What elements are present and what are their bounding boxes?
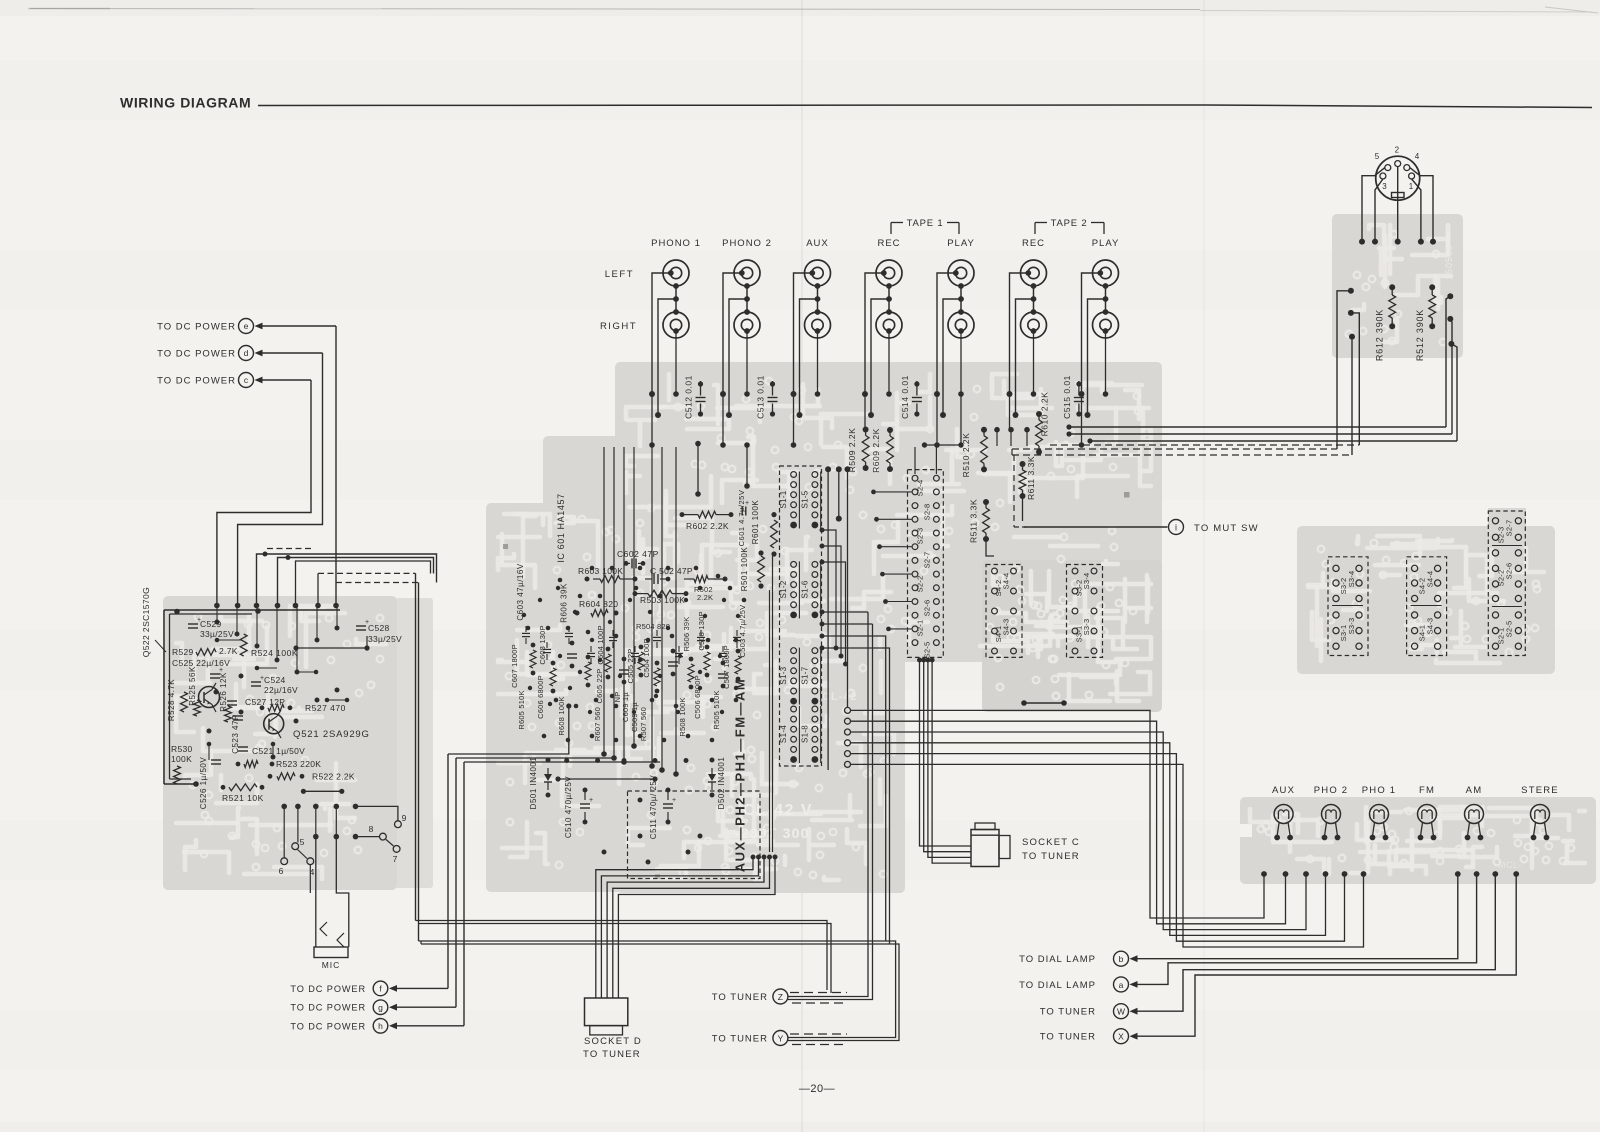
svg-text:S2-7: S2-7	[1505, 520, 1514, 537]
svg-text:AUX: AUX	[1272, 785, 1295, 796]
svg-text:C512 0.01: C512 0.01	[684, 375, 694, 419]
svg-text:PHONO 1: PHONO 1	[651, 238, 701, 249]
svg-text:TO TUNER: TO TUNER	[1040, 1032, 1096, 1043]
svg-text:C609 1µ: C609 1µ	[621, 692, 630, 722]
svg-text:i: i	[1175, 523, 1177, 533]
svg-text:C527 12P: C527 12P	[245, 697, 285, 707]
svg-text:TO DC POWER: TO DC POWER	[290, 1003, 366, 1013]
svg-text:R606 39K: R606 39K	[560, 583, 569, 623]
svg-text:TO MUT SW: TO MUT SW	[1194, 523, 1259, 534]
svg-text:TO DIAL LAMP: TO DIAL LAMP	[1019, 954, 1096, 965]
svg-text:Z: Z	[778, 992, 783, 1002]
svg-text:TO DC POWER: TO DC POWER	[157, 349, 236, 360]
svg-text:AM: AM	[1466, 785, 1483, 796]
svg-text:C521 1µ/50V: C521 1µ/50V	[252, 746, 305, 756]
svg-text:R505 510K: R505 510K	[712, 690, 721, 729]
svg-text:150500: 150500	[1444, 244, 1454, 280]
svg-text:TO TUNER: TO TUNER	[712, 992, 768, 1003]
svg-text:PHO 2: PHO 2	[1314, 785, 1349, 796]
svg-text:S2-5: S2-5	[923, 642, 932, 659]
svg-text:STERE: STERE	[1521, 785, 1559, 796]
svg-text:S1-1: S1-1	[779, 490, 788, 508]
svg-text:6: 6	[279, 866, 284, 876]
svg-text:S1-3: S1-3	[779, 666, 788, 684]
svg-text:R609 2.2K: R609 2.2K	[871, 428, 881, 473]
svg-text:S3-3: S3-3	[1347, 618, 1356, 635]
svg-text:WIRING DIAGRAM: WIRING DIAGRAM	[120, 95, 251, 111]
svg-text:g: g	[378, 1003, 383, 1013]
svg-text:CL-42: CL-42	[822, 691, 858, 703]
svg-text:R605 510K: R605 510K	[517, 690, 526, 729]
svg-text:R523 220K: R523 220K	[276, 759, 321, 769]
svg-text:R603 100K: R603 100K	[578, 566, 623, 576]
svg-text:S4-3: S4-3	[1426, 618, 1435, 635]
svg-text:S4-4: S4-4	[1002, 573, 1011, 590]
svg-text:S4-3: S4-3	[1002, 619, 1011, 636]
svg-text:TAPE 1: TAPE 1	[907, 218, 944, 229]
svg-text:S1-4: S1-4	[779, 725, 788, 743]
svg-text:R522 2.2K: R522 2.2K	[312, 772, 355, 782]
svg-text:S3-4: S3-4	[1082, 573, 1091, 590]
svg-text:S2-5: S2-5	[1505, 621, 1514, 638]
svg-text:h: h	[378, 1021, 383, 1031]
svg-text:C 502 47P: C 502 47P	[650, 566, 693, 576]
svg-text:R524 100K: R524 100K	[251, 648, 298, 658]
svg-text:R504 820: R504 820	[636, 622, 670, 631]
svg-text:S1-7: S1-7	[800, 666, 809, 684]
svg-text:D501 IN4001: D501 IN4001	[529, 757, 538, 810]
svg-text:C607 1800P: C607 1800P	[510, 644, 519, 688]
svg-text:R526 12K: R526 12K	[219, 672, 228, 712]
svg-text:S3-4: S3-4	[1347, 571, 1356, 588]
svg-text:S2-2: S2-2	[916, 576, 925, 593]
svg-text:CL-42 V: CL-42 V	[743, 802, 813, 819]
svg-text:RIGHT: RIGHT	[600, 321, 637, 332]
svg-text:C506 6800P: C506 6800P	[693, 675, 702, 719]
svg-text:2: 2	[1395, 146, 1400, 155]
svg-text:REC: REC	[1022, 238, 1045, 249]
svg-text:R521 10K: R521 10K	[222, 793, 264, 803]
svg-text:TO DC POWER: TO DC POWER	[290, 984, 366, 994]
svg-text:C514 0.01: C514 0.01	[900, 375, 910, 419]
svg-text:S2-7: S2-7	[923, 552, 932, 569]
svg-text:X: X	[1118, 1032, 1124, 1042]
svg-text:PHONO 2: PHONO 2	[722, 238, 772, 249]
svg-text:SOCKET D: SOCKET D	[584, 1036, 642, 1047]
svg-text:MCL-: MCL-	[1498, 860, 1522, 870]
svg-text:a: a	[1119, 980, 1124, 990]
svg-text:S1-6: S1-6	[800, 580, 809, 598]
svg-text:SOCKET C: SOCKET C	[1022, 837, 1080, 848]
svg-text:C603 47µ/16V: C603 47µ/16V	[516, 563, 525, 620]
svg-text:TO TUNER: TO TUNER	[1022, 851, 1080, 862]
svg-text:e: e	[244, 321, 249, 331]
svg-text:3: 3	[1382, 182, 1387, 191]
svg-text:C608 130P: C608 130P	[538, 625, 547, 664]
svg-text:S2-1: S2-1	[916, 620, 925, 637]
svg-text:100K: 100K	[171, 754, 192, 764]
svg-text:8: 8	[369, 824, 374, 834]
svg-text:PHO 1: PHO 1	[1362, 785, 1397, 796]
svg-text:+: +	[672, 797, 676, 804]
svg-text:S2-8: S2-8	[923, 504, 932, 521]
svg-text:C606 6800P: C606 6800P	[536, 675, 545, 719]
svg-text:S2-6: S2-6	[1505, 563, 1514, 580]
svg-text:22µ/16V: 22µ/16V	[264, 685, 298, 695]
svg-text:TO TUNER: TO TUNER	[583, 1049, 641, 1060]
svg-text:TO TUNER: TO TUNER	[1040, 1007, 1096, 1018]
svg-text:b: b	[1119, 954, 1124, 964]
svg-text:PLAY: PLAY	[1092, 238, 1120, 249]
svg-text:R602 2.2K: R602 2.2K	[686, 521, 729, 531]
svg-text:C526 1µ/50V: C526 1µ/50V	[199, 757, 208, 810]
svg-text:+: +	[589, 797, 593, 804]
svg-text:PLAY: PLAY	[947, 238, 975, 249]
svg-text:D502 IN4001: D502 IN4001	[717, 757, 726, 810]
svg-text:R604 820: R604 820	[579, 599, 618, 609]
svg-text:Y: Y	[778, 1033, 784, 1043]
svg-text:S1-8: S1-8	[800, 725, 809, 743]
svg-text:C510 470µ/25V: C510 470µ/25V	[564, 776, 573, 838]
svg-text:R506 39K: R506 39K	[682, 617, 691, 652]
svg-text:R529: R529	[172, 647, 194, 657]
svg-text:33µ/25V: 33µ/25V	[200, 629, 234, 639]
svg-text:C602 47P: C602 47P	[617, 549, 659, 559]
svg-text:C509 1µ: C509 1µ	[630, 702, 639, 732]
svg-text:S1-5: S1-5	[800, 490, 809, 508]
svg-text:R503 100K: R503 100K	[640, 595, 685, 605]
svg-text:S1-2: S1-2	[779, 580, 788, 598]
svg-text:TO DC POWER: TO DC POWER	[290, 1021, 366, 1031]
svg-text:C504 100P: C504 100P	[642, 638, 651, 677]
svg-text:Q521 2SA929G: Q521 2SA929G	[293, 729, 370, 740]
svg-text:33µ/25V: 33µ/25V	[368, 634, 402, 644]
svg-text:S2-4: S2-4	[916, 480, 925, 497]
svg-text:S4-4: S4-4	[1426, 571, 1435, 588]
svg-text:R508 100K: R508 100K	[678, 697, 687, 736]
svg-text:R610 2.2K: R610 2.2K	[1040, 392, 1050, 437]
svg-text:TO DC POWER: TO DC POWER	[157, 376, 236, 387]
svg-text:R525 56K: R525 56K	[188, 666, 197, 706]
svg-text:9: 9	[402, 813, 407, 823]
svg-text:LEFT: LEFT	[605, 269, 634, 280]
svg-text:C524: C524	[264, 675, 286, 685]
svg-text:1: 1	[1409, 182, 1414, 191]
svg-text:C601 4.7µ/25V: C601 4.7µ/25V	[737, 490, 746, 547]
svg-text:NP: NP	[613, 692, 622, 703]
svg-text:Q522 2SC1570G: Q522 2SC1570G	[141, 587, 151, 657]
svg-text:4: 4	[1415, 152, 1420, 161]
svg-text:R510 2.2K: R510 2.2K	[961, 433, 971, 478]
svg-text:TO DIAL LAMP: TO DIAL LAMP	[1019, 980, 1096, 991]
svg-text:R509 2.2K: R509 2.2K	[847, 428, 857, 473]
svg-text:—20—: —20—	[799, 1083, 835, 1095]
svg-text:d: d	[244, 348, 249, 358]
svg-text:R511 3.3K: R511 3.3K	[969, 499, 979, 543]
svg-text:AUX: AUX	[806, 238, 829, 249]
svg-text:R530: R530	[171, 744, 193, 754]
svg-text:FM: FM	[1419, 785, 1435, 796]
svg-text:R501 100K: R501 100K	[740, 547, 749, 592]
svg-text:TO DC POWER: TO DC POWER	[157, 322, 236, 333]
svg-text:7: 7	[393, 854, 398, 864]
svg-text:AUX—PH2—PH1—FM—AM: AUX—PH2—PH1—FM—AM	[733, 678, 748, 873]
svg-text:S2-6: S2-6	[923, 600, 932, 617]
svg-text:C511 470µ/ 25V: C511 470µ/ 25V	[649, 775, 658, 840]
svg-text:S2-3: S2-3	[916, 528, 925, 545]
svg-text:5: 5	[1375, 152, 1380, 161]
svg-text:R612 390K: R612 390K	[1375, 309, 1385, 361]
svg-text:TO TUNER: TO TUNER	[712, 1034, 768, 1045]
svg-text:R512 390K: R512 390K	[1415, 309, 1425, 361]
svg-text:+: +	[745, 500, 749, 507]
svg-text:W: W	[1117, 1007, 1125, 1017]
svg-text:MIC: MIC	[322, 960, 341, 970]
svg-text:2.2K: 2.2K	[697, 593, 713, 602]
svg-text:TAPE 2: TAPE 2	[1051, 218, 1088, 229]
svg-text:C513 0.01: C513 0.01	[756, 375, 766, 419]
svg-text:C515 0.01: C515 0.01	[1062, 375, 1072, 419]
svg-text:REC: REC	[877, 238, 900, 249]
svg-text:S3-3: S3-3	[1082, 619, 1091, 636]
svg-text:R608 100K: R608 100K	[557, 696, 566, 735]
svg-text:R601 100K: R601 100K	[751, 500, 760, 545]
svg-text:R527 470: R527 470	[305, 703, 346, 713]
svg-text:C528: C528	[368, 623, 390, 633]
svg-text:2.7K: 2.7K	[219, 646, 238, 656]
svg-text:5: 5	[300, 837, 305, 847]
svg-text:IC 601 HA1457: IC 601 HA1457	[556, 493, 566, 562]
svg-text:R611 3.3K: R611 3.3K	[1026, 456, 1036, 500]
svg-text:R528 4.7K: R528 4.7K	[167, 679, 176, 721]
svg-text:R607 560: R607 560	[593, 707, 602, 741]
